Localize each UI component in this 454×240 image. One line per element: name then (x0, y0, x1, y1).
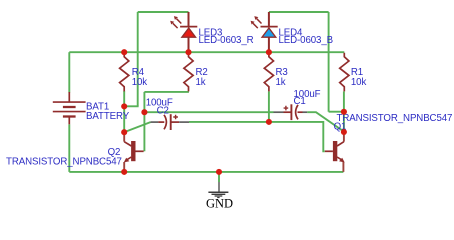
wire Q1 collector column (343, 112, 345, 132)
wire top-left rail (138, 11, 189, 13)
wire jog to Q1 collector column (329, 111, 344, 113)
resistor R2 (184, 53, 193, 92)
wire R3 bottom (268, 91, 270, 122)
wire R2 bottom jog (144, 91, 189, 93)
capacitor C2 (151, 114, 190, 130)
node Q2 emitter on ground rail (121, 169, 127, 175)
node R3/M2 junction (266, 119, 272, 125)
capacitor C1 (274, 104, 308, 120)
LED LED3 (170, 12, 197, 52)
svg-text:1k: 1k (276, 77, 286, 88)
svg-text:LED-0603_B: LED-0603_B (279, 35, 333, 46)
wire Q2 base vertical (143, 92, 145, 151)
node R1/LED4 junction (341, 109, 347, 115)
wire C1 to Q1 collector diagonal (307, 112, 344, 131)
wire top-right rail (269, 11, 329, 13)
svg-text:BATTERY: BATTERY (86, 111, 130, 122)
resistor R3 (264, 53, 273, 92)
transistor Q1 (325, 132, 345, 172)
wire battery bottom (68, 124, 70, 172)
wire right cathode drop (328, 12, 330, 112)
wire jog to R4 column (124, 105, 138, 107)
node Q1 collector (341, 129, 347, 135)
node Q2 base (141, 109, 147, 115)
wire R1 bottom (343, 91, 345, 111)
battery BAT1 (53, 92, 86, 124)
wire Q2 collector column (123, 106, 125, 132)
svg-text:C2: C2 (157, 106, 169, 117)
node V+ at LED3 (185, 49, 191, 55)
wire M2 from C2 to Q1 base (189, 122, 325, 151)
svg-text:TRANSISTOR_NPNBC547: TRANSISTOR_NPNBC547 (337, 113, 453, 124)
node R4/LED3 junction (121, 103, 127, 109)
svg-text:TRANSISTOR_NPNBC547: TRANSISTOR_NPNBC547 (6, 157, 122, 168)
resistor R4 (120, 53, 129, 92)
resistor R1 (340, 53, 349, 92)
node ground stub (216, 169, 222, 175)
node Q2 collector (121, 129, 127, 135)
wire GND stub (218, 172, 220, 182)
wire ground rail (69, 171, 343, 173)
LED LED4 (251, 12, 278, 52)
node V+ at LED4 (266, 49, 272, 55)
svg-text:1k: 1k (196, 77, 206, 88)
svg-text:GND: GND (206, 197, 233, 211)
svg-text:C1: C1 (294, 96, 306, 107)
wire V+ rail (69, 51, 344, 53)
svg-text:LED-0603_R: LED-0603_R (199, 35, 254, 46)
svg-text:10k: 10k (351, 77, 367, 88)
wire Q2 collector to C2 diagonal (124, 122, 150, 132)
wire R4 bottom (123, 91, 125, 106)
wire battery top (68, 52, 70, 92)
ground (208, 182, 228, 198)
transistor Q2 (124, 132, 144, 172)
wire left cathode drop (137, 12, 139, 106)
node V+ at R4 (121, 49, 127, 55)
wire M1 from Q2 base to C1 (144, 111, 273, 113)
svg-text:10k: 10k (132, 77, 148, 88)
